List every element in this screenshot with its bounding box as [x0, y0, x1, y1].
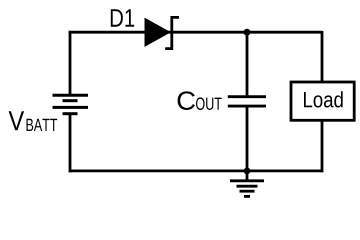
- load box: [291, 82, 354, 120]
- diode D1 cathode bar with schottky hooks: [165, 17, 179, 48]
- node A junction dot (top of COUT): [244, 29, 251, 36]
- wire left: top corner down to battery + plate: [69, 31, 72, 95]
- wire load top: top rail down into load box: [321, 31, 324, 82]
- node B junction dot (ground tap on bottom rail): [244, 168, 251, 175]
- wire capacitor bottom: bottom plate down to bottom rail: [246, 106, 249, 171]
- wire capacitor top: node A down to top plate: [246, 32, 249, 97]
- diode D1 (Schottky) triangle: [145, 18, 171, 47]
- wire bottom rail: [69, 169, 322, 172]
- capacitor COUT: [228, 97, 266, 106]
- wire left lower: battery - plate down to bottom rail: [69, 114, 72, 173]
- ground: [230, 181, 264, 197]
- wire top net: battery+ to diode to node A to load: [69, 31, 322, 34]
- label VBATT: [9, 111, 25, 130]
- wire load bottom: load box down to bottom rail: [321, 120, 324, 172]
- label D1: [111, 9, 134, 27]
- wire ground stem: [246, 171, 249, 181]
- label COUT: [178, 91, 195, 110]
- label Load: [304, 91, 343, 107]
- battery VBATT: [53, 95, 89, 114]
